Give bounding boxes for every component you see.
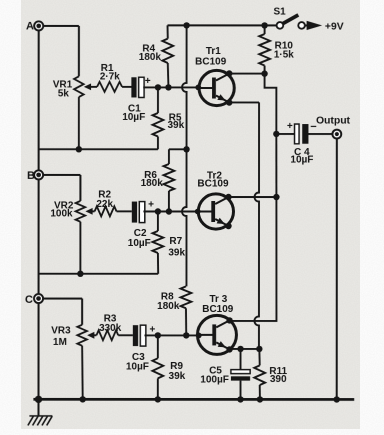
svg-text:390: 390 xyxy=(270,374,287,385)
svg-text:100k: 100k xyxy=(50,208,73,219)
svg-text:10µF: 10µF xyxy=(126,362,149,373)
svg-text:100µF: 100µF xyxy=(200,375,229,386)
svg-text:39k: 39k xyxy=(168,120,185,131)
svg-text:Tr1: Tr1 xyxy=(206,46,221,57)
svg-text:180k: 180k xyxy=(141,178,164,189)
svg-text:+: + xyxy=(149,324,155,335)
svg-text:39k: 39k xyxy=(168,247,185,258)
svg-text:BC109: BC109 xyxy=(202,304,234,315)
svg-text:+: + xyxy=(287,121,293,132)
svg-text:BC109: BC109 xyxy=(197,178,229,189)
svg-text:A: A xyxy=(26,20,34,32)
svg-text:5k: 5k xyxy=(58,89,70,100)
svg-text:2·7k: 2·7k xyxy=(100,71,120,82)
svg-text:+: + xyxy=(148,200,154,211)
svg-text:1·5k: 1·5k xyxy=(274,49,294,60)
svg-text:330k: 330k xyxy=(99,323,122,334)
svg-text:VR3: VR3 xyxy=(51,326,71,337)
svg-text:180k: 180k xyxy=(139,52,162,63)
svg-text:39k: 39k xyxy=(169,371,186,382)
svg-text:10µF: 10µF xyxy=(290,155,313,166)
svg-text:Output: Output xyxy=(316,116,351,127)
svg-text:180k: 180k xyxy=(157,301,180,312)
svg-text:+: + xyxy=(145,76,151,87)
svg-text:BC109: BC109 xyxy=(195,56,227,67)
svg-text:10µF: 10µF xyxy=(128,238,151,249)
svg-text:10µF: 10µF xyxy=(122,112,145,123)
svg-text:B: B xyxy=(27,170,35,182)
svg-text:R7: R7 xyxy=(169,236,182,247)
svg-text:1M: 1M xyxy=(53,337,67,348)
svg-text:C: C xyxy=(25,294,33,306)
svg-text:22k: 22k xyxy=(96,199,113,210)
svg-text:S1: S1 xyxy=(273,6,286,17)
svg-text:+9V: +9V xyxy=(325,21,344,32)
svg-text:−: − xyxy=(310,121,316,133)
